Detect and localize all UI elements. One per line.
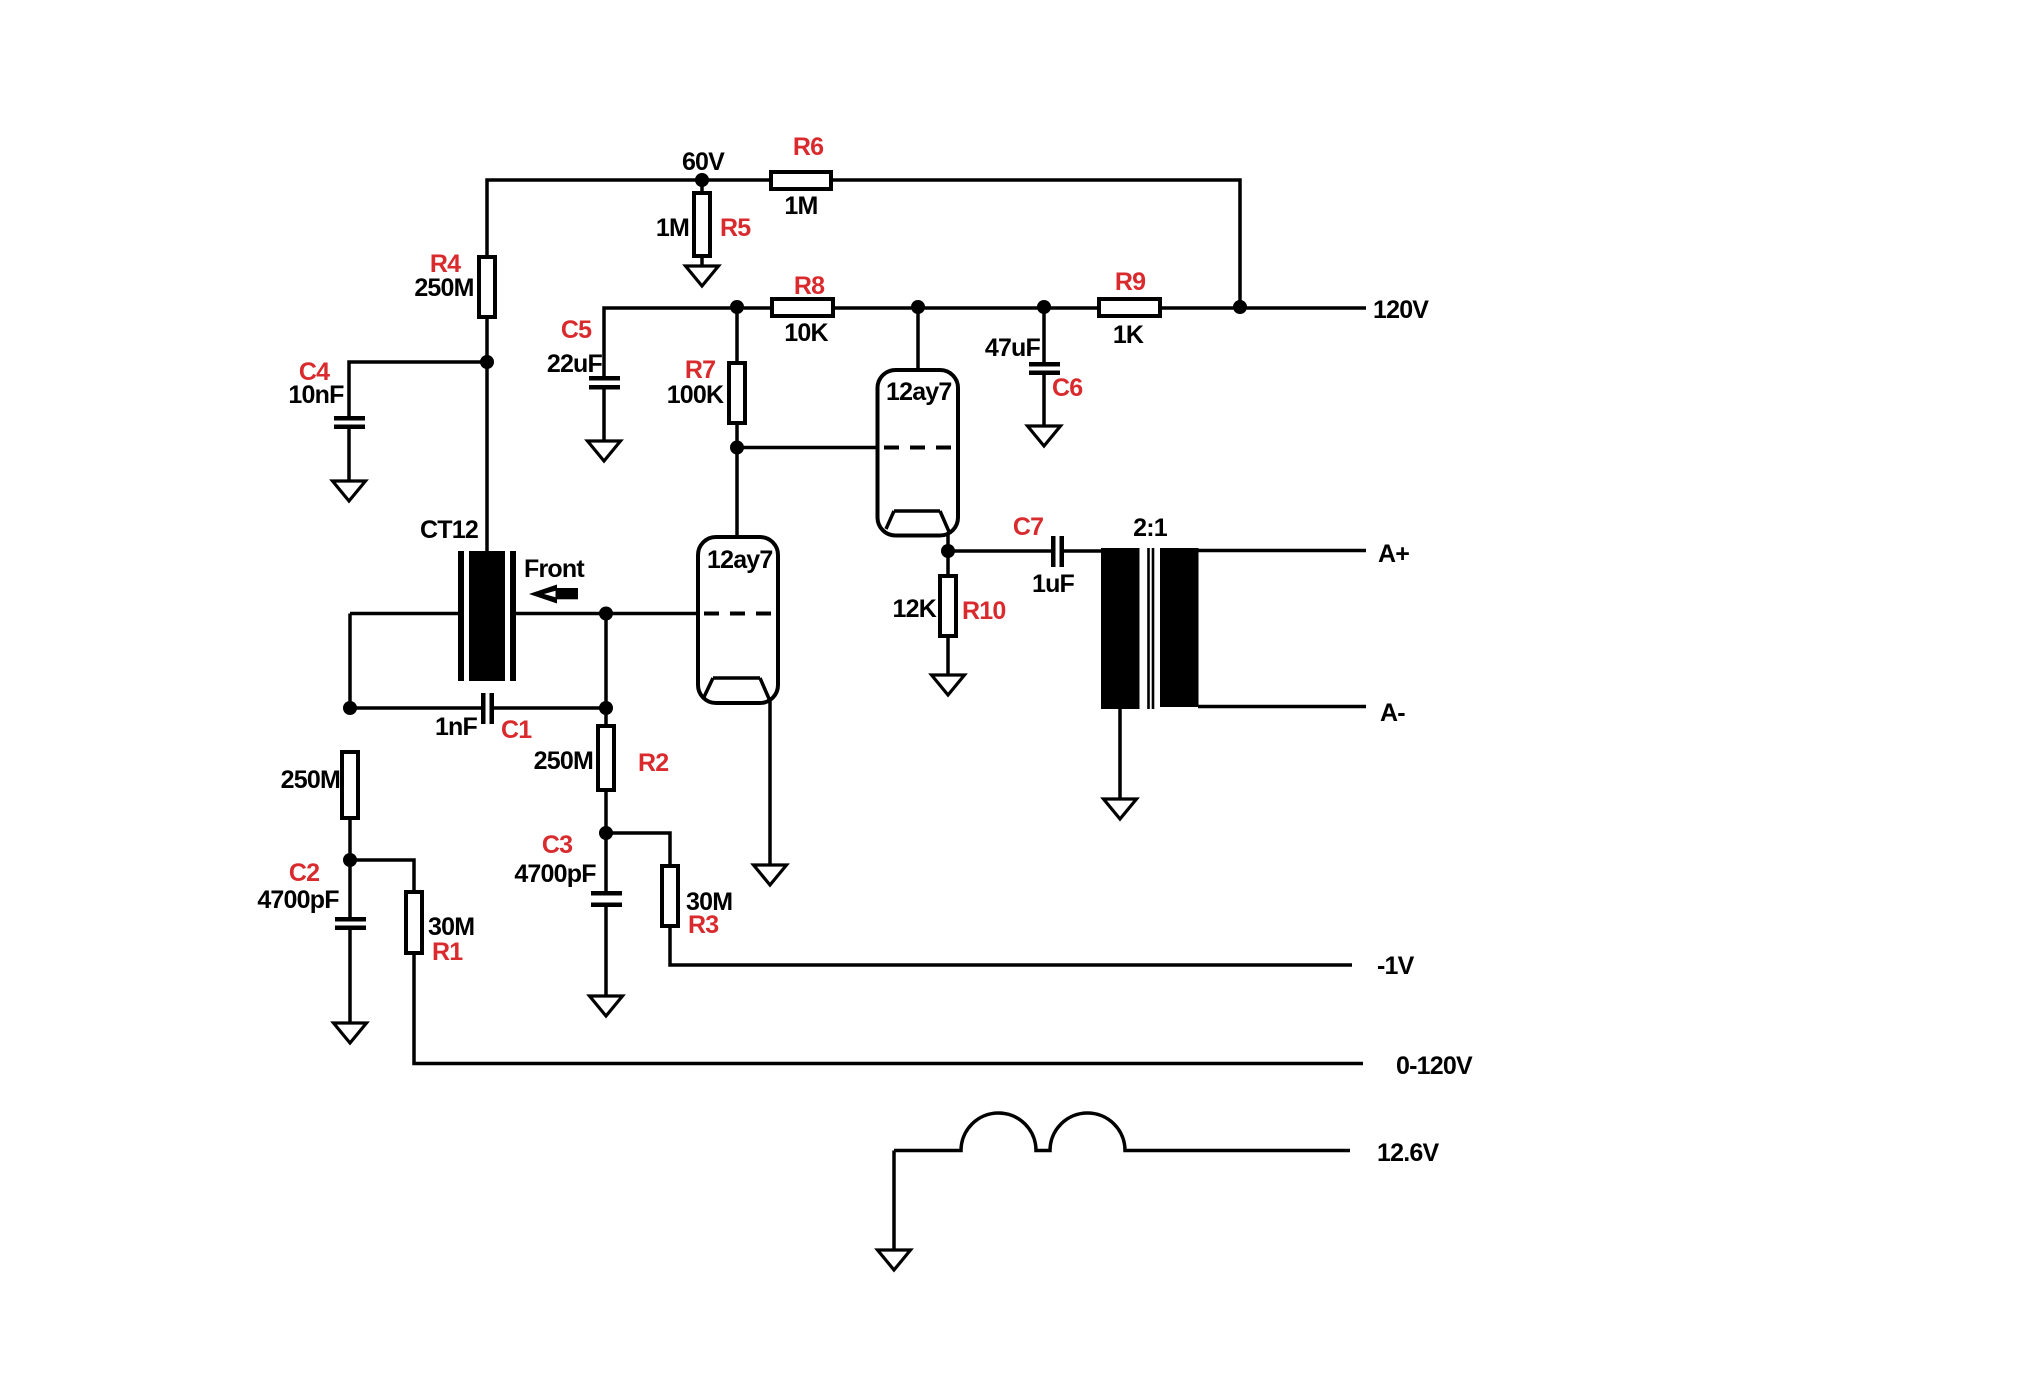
svg-text:4700pF: 4700pF bbox=[514, 860, 596, 888]
vacuum tube U1 12ay7 bbox=[698, 537, 778, 703]
ground below R10 bbox=[932, 675, 965, 695]
wire C6 drop bbox=[1042, 307, 1046, 362]
wire R7 bottom bbox=[735, 423, 739, 448]
capacitor C5 bbox=[547, 316, 620, 390]
transducer CT12 bbox=[420, 516, 516, 681]
node C1 left junction bbox=[343, 701, 357, 715]
wire C6 to ground bbox=[1042, 375, 1046, 426]
svg-text:C5: C5 bbox=[561, 316, 592, 344]
node CT12 output junction bbox=[599, 607, 613, 621]
svg-text:4700pF: 4700pF bbox=[257, 886, 339, 914]
node R4/C4 junction bbox=[480, 355, 494, 369]
svg-text:1uF: 1uF bbox=[1032, 570, 1075, 598]
wire C4 to ground bbox=[347, 429, 351, 481]
wire R1 to 0-120V rail bbox=[414, 953, 1363, 1064]
svg-text:Front: Front bbox=[524, 555, 585, 583]
svg-text:0-120V: 0-120V bbox=[1396, 1052, 1473, 1080]
wire heater left to ground bbox=[892, 1151, 896, 1251]
wire 250M bottom bbox=[348, 818, 352, 917]
wire U2 anode bbox=[916, 307, 920, 370]
capacitor C4 bbox=[288, 358, 365, 429]
ground below C5 bbox=[588, 441, 621, 461]
svg-text:R5: R5 bbox=[720, 214, 751, 242]
svg-text:1K: 1K bbox=[1113, 321, 1144, 349]
svg-text:C6: C6 bbox=[1052, 374, 1082, 402]
capacitor C7 bbox=[1013, 513, 1075, 598]
wire R3 to -1V rail bbox=[670, 926, 1352, 965]
wire 60V node to R5 bbox=[700, 180, 704, 193]
resistor R7 bbox=[667, 356, 745, 423]
svg-text:R8: R8 bbox=[794, 272, 825, 300]
svg-text:250M: 250M bbox=[414, 274, 473, 302]
svg-text:12.6V: 12.6V bbox=[1377, 1139, 1439, 1167]
resistor R4 bbox=[414, 250, 495, 317]
svg-text:R10: R10 bbox=[962, 597, 1005, 625]
svg-text:C1: C1 bbox=[501, 716, 532, 744]
resistor R2 bbox=[534, 726, 669, 790]
svg-text:1M: 1M bbox=[784, 192, 817, 220]
svg-text:12ay7: 12ay7 bbox=[886, 378, 952, 406]
wire junction to R3 bbox=[606, 833, 670, 866]
svg-text:250M: 250M bbox=[281, 766, 340, 794]
ground below U1 cathode bbox=[754, 865, 787, 885]
svg-text:-1V: -1V bbox=[1377, 952, 1415, 980]
svg-text:R2: R2 bbox=[638, 749, 668, 777]
ground below C3 bbox=[590, 996, 623, 1016]
svg-text:1M: 1M bbox=[656, 214, 689, 242]
node 60V bbox=[682, 148, 725, 187]
svg-text:R6: R6 bbox=[793, 133, 823, 161]
wire U2 cathode bbox=[946, 534, 950, 551]
wire C3 to ground bbox=[604, 907, 608, 996]
wire U1 anode to R7 junction bbox=[735, 448, 739, 538]
resistor 250M left bbox=[281, 752, 358, 818]
svg-text:A-: A- bbox=[1380, 699, 1405, 727]
wire transformer primary to ground bbox=[1118, 709, 1122, 799]
svg-text:30M: 30M bbox=[428, 913, 474, 941]
wire R4 to CT12 bbox=[485, 317, 489, 551]
svg-text:12K: 12K bbox=[893, 595, 937, 623]
wire C5 to ground bbox=[602, 390, 606, 442]
wire junction to R1 bbox=[350, 860, 414, 892]
wire CT12 junction down to C1 junction bbox=[604, 614, 608, 727]
node R2/C3/R3 junction bbox=[599, 826, 613, 840]
svg-text:C7: C7 bbox=[1013, 513, 1043, 541]
svg-text:C2: C2 bbox=[289, 859, 319, 887]
wire C1 left segment bbox=[350, 706, 481, 710]
wire 120V rail bbox=[604, 308, 1366, 376]
resistor R5 bbox=[656, 193, 751, 256]
svg-text:R9: R9 bbox=[1115, 268, 1145, 296]
node C2 junction bbox=[343, 853, 357, 867]
resistor R3 bbox=[662, 866, 732, 939]
wire R10 to ground bbox=[946, 636, 950, 675]
svg-text:10K: 10K bbox=[784, 319, 828, 347]
resistor R9 bbox=[1099, 268, 1160, 349]
wire grid of U2 bbox=[737, 446, 878, 450]
svg-text:12ay7: 12ay7 bbox=[707, 546, 773, 574]
svg-text:A+: A+ bbox=[1378, 540, 1409, 568]
node U2 anode junction bbox=[911, 300, 925, 314]
wire 60V top rail left segment bbox=[487, 180, 771, 257]
ground below transformer bbox=[1104, 799, 1137, 819]
svg-text:47uF: 47uF bbox=[985, 334, 1041, 362]
wire C1 right segment bbox=[494, 706, 606, 710]
wire A+ output bbox=[1198, 549, 1366, 553]
capacitor C1 bbox=[435, 693, 532, 744]
wire A- output bbox=[1198, 705, 1366, 709]
node C6 junction bbox=[1037, 300, 1051, 314]
resistor R1 bbox=[406, 892, 474, 966]
capacitor C6 bbox=[985, 334, 1083, 402]
transformer T1 2:1 bbox=[1101, 514, 1199, 709]
node R7 bottom junction bbox=[730, 441, 744, 455]
wire R7 top bbox=[735, 307, 739, 363]
svg-text:120V: 120V bbox=[1373, 296, 1429, 324]
ground below C4 bbox=[333, 481, 366, 501]
wire U1 cathode to ground bbox=[768, 701, 772, 865]
svg-text:R7: R7 bbox=[685, 356, 715, 384]
svg-text:250M: 250M bbox=[534, 747, 593, 775]
svg-text:100K: 100K bbox=[667, 381, 724, 409]
ground below C2 bbox=[334, 1023, 367, 1043]
wire C2 to ground bbox=[348, 930, 352, 1023]
ground below heater bbox=[878, 1250, 911, 1270]
front direction arrow bbox=[529, 585, 578, 604]
svg-text:1nF: 1nF bbox=[435, 713, 478, 741]
wire CT12 right lead to U1 grid bbox=[516, 612, 698, 616]
heater winding 12.6V bbox=[894, 1113, 1350, 1151]
wire R10 top bbox=[946, 551, 950, 576]
capacitor C2 bbox=[257, 859, 366, 930]
wire CT12 left lead bbox=[350, 612, 458, 616]
resistor R10 bbox=[893, 576, 1006, 636]
node U2 cathode junction bbox=[941, 544, 955, 558]
vacuum tube U2 12ay7 bbox=[878, 370, 959, 536]
svg-text:2:1: 2:1 bbox=[1133, 514, 1168, 542]
wire left branch down bbox=[348, 614, 352, 709]
svg-text:R3: R3 bbox=[688, 911, 718, 939]
wire R2 bottom bbox=[604, 790, 608, 891]
svg-text:10nF: 10nF bbox=[288, 381, 344, 409]
wire cathode to C7 bbox=[948, 549, 1051, 553]
wire 60V top rail right segment bbox=[831, 180, 1240, 307]
svg-text:CT12: CT12 bbox=[420, 516, 478, 544]
node R7 top junction bbox=[730, 300, 744, 314]
node R9 right junction bbox=[1233, 300, 1247, 314]
resistor R8 bbox=[772, 272, 833, 347]
ground below C6 bbox=[1028, 426, 1061, 446]
capacitor C3 bbox=[514, 831, 622, 907]
ground below R5 bbox=[686, 266, 719, 286]
svg-text:C3: C3 bbox=[542, 831, 572, 859]
resistor R6 bbox=[771, 133, 831, 220]
svg-text:R1: R1 bbox=[432, 938, 463, 966]
wire R5 to ground bbox=[700, 256, 704, 266]
node C1 right junction bbox=[599, 701, 613, 715]
wire C7 to transformer bbox=[1064, 549, 1101, 553]
svg-text:60V: 60V bbox=[682, 148, 725, 176]
wire C4 stub bbox=[349, 362, 487, 416]
svg-text:22uF: 22uF bbox=[547, 350, 603, 378]
